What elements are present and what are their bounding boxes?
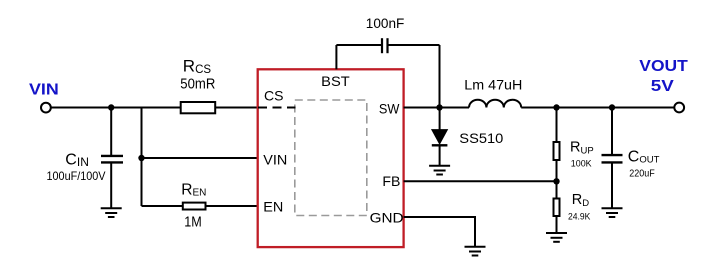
diode D1 SS510	[432, 108, 448, 166]
wire RD to ground	[556, 216, 558, 233]
IC internal dashed outline	[295, 100, 367, 216]
svg-text:CS: CS	[264, 88, 284, 104]
svg-text:CIN: CIN	[65, 152, 89, 170]
wire BST up	[335, 45, 337, 69]
junction input node	[108, 104, 114, 110]
wire BST top right	[389, 44, 440, 46]
wire RUP to FB node	[556, 161, 558, 198]
wire CS dashed (inside IC)	[258, 107, 296, 109]
ground (COUT)	[602, 208, 623, 217]
resistor REN	[183, 203, 206, 210]
resistor RUP	[554, 142, 560, 160]
inductor Lm	[469, 100, 521, 108]
wire down to SW node	[439, 45, 441, 108]
svg-text:VOUT: VOUT	[639, 58, 688, 75]
wire junction down to CIN	[110, 108, 112, 156]
svg-text:EN: EN	[263, 198, 283, 214]
svg-text:50mR: 50mR	[180, 77, 215, 93]
junction COUT top	[609, 104, 615, 110]
ground (GND pin)	[465, 247, 486, 256]
svg-text:FB: FB	[382, 173, 400, 189]
terminal VOUT	[674, 103, 684, 113]
wire inductor to VOUT	[521, 107, 674, 109]
terminal VIN	[41, 103, 51, 113]
wire SW to inductor	[404, 107, 469, 109]
capacitor COUT	[602, 155, 623, 208]
svg-text:1M: 1M	[184, 215, 202, 231]
junction FB node	[553, 178, 559, 184]
svg-text:BST: BST	[321, 73, 350, 89]
wire BST top left	[336, 44, 381, 46]
wire down to RUP	[556, 108, 558, 142]
junction feedback divider top	[553, 104, 559, 110]
wire EN	[142, 205, 258, 207]
junction SW node	[436, 104, 442, 110]
svg-text:Lm 47uH: Lm 47uH	[464, 76, 522, 92]
svg-text:VIN: VIN	[29, 81, 59, 98]
ground (RD)	[546, 233, 567, 242]
svg-text:GND: GND	[370, 209, 404, 225]
wire branch down from input to VIN pin / EN	[141, 108, 143, 207]
wire FB	[404, 180, 557, 182]
svg-text:100uF/100V: 100uF/100V	[47, 169, 106, 183]
svg-text:100K: 100K	[571, 159, 592, 170]
wire GND pin	[404, 217, 475, 247]
ground (diode)	[429, 166, 450, 175]
wire VIN terminal to CS input	[51, 107, 257, 109]
capacitor CIN	[101, 156, 123, 208]
wire down to COUT	[611, 108, 613, 155]
svg-text:SS510: SS510	[459, 130, 503, 146]
svg-text:220uF: 220uF	[629, 169, 655, 180]
capacitor C2 100nF	[382, 38, 388, 53]
wire VIN pin	[142, 157, 258, 159]
resistor RCS	[181, 102, 216, 113]
junction VIN pin branch	[138, 155, 144, 161]
ground (CIN)	[101, 208, 122, 217]
IC U1 body	[258, 69, 404, 247]
svg-text:VIN: VIN	[263, 151, 287, 167]
svg-text:SW: SW	[379, 100, 400, 116]
svg-text:100nF: 100nF	[366, 15, 405, 31]
svg-text:5V: 5V	[651, 78, 674, 95]
resistor RD	[554, 199, 560, 217]
svg-text:24.9K: 24.9K	[568, 212, 591, 223]
